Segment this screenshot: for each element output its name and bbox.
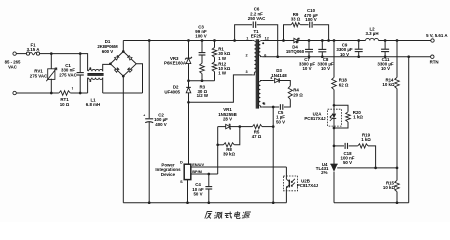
wire AC line top from input L terminal to fuse [16, 53, 27, 55]
node RTN drop [407, 55, 410, 58]
svg-text:400 V: 400 V [155, 122, 167, 127]
svg-text:28 V: 28 V [223, 117, 232, 122]
svg-text:EN/UV: EN/UV [192, 162, 204, 167]
U2B light arrows [291, 179, 295, 186]
svg-text:15TQ060: 15TQ060 [286, 49, 305, 54]
svg-text:33 Ω: 33 Ω [291, 17, 301, 22]
U1 source wire [187, 180, 189, 203]
RTN vertical to secondary ground rail [408, 57, 410, 203]
node bias return on ground rail [272, 201, 275, 204]
blocking diode D2 UF4005 [186, 87, 191, 92]
capacitor C1 [79, 54, 81, 73]
output capacitor C7 [308, 39, 311, 42]
svg-text:Device: Device [161, 172, 176, 177]
svg-text:10 V: 10 V [321, 66, 330, 71]
wire bridge bottom vertex down to primary ground rail [122, 76, 124, 203]
compensation capacitor C18 [334, 145, 344, 147]
resistor R20 parallel loop [334, 105, 348, 112]
svg-text:3.3 µH: 3.3 µH [365, 31, 378, 36]
output inductor L2 [366, 38, 379, 40]
wire U2A cathode to TL431 [333, 128, 335, 146]
wire drain junction to transformer pin 3 [189, 75, 253, 102]
EN/UV line to opto U2B [191, 166, 287, 168]
U2A LED [333, 105, 335, 113]
5V rail D4 to L2 [298, 40, 366, 42]
node C6 right leg on secondary ground rail [276, 55, 279, 58]
svg-text:5: 5 [263, 102, 265, 106]
node snubber left leg [282, 39, 285, 42]
node clamp bottom junction [187, 79, 190, 82]
svg-text:10 V: 10 V [381, 66, 390, 71]
node C4 tap [207, 173, 210, 176]
node U2A anode [333, 104, 336, 107]
svg-text:1 W: 1 W [218, 56, 227, 61]
svg-text:2%: 2% [321, 170, 327, 175]
svg-text:1 kΩ: 1 kΩ [361, 137, 371, 142]
input terminal J1-N [13, 91, 16, 94]
svg-text:1 W: 1 W [218, 71, 227, 76]
output capacitor C9 [357, 39, 360, 42]
svg-text:600 V: 600 V [102, 49, 114, 54]
node bias return [272, 106, 275, 109]
wire L1 bottom-right down to AC bottom line [102, 78, 104, 93]
svg-text:1 kΩ: 1 kΩ [353, 115, 363, 120]
wire L1 bottom-left to AC bottom line [87, 78, 89, 93]
BP/M line [191, 173, 218, 175]
clamp bottom wire [189, 80, 215, 82]
svg-text:UF4005: UF4005 [164, 89, 180, 94]
svg-text:5 V, 5.61 A: 5 V, 5.61 A [426, 33, 448, 38]
node R5 to bias return [272, 125, 275, 128]
node bridge left vertex [109, 62, 112, 65]
secondary 5V rail from pin 12 to D4 [262, 40, 293, 42]
svg-text:39 kΩ: 39 kΩ [223, 152, 236, 157]
bias capacitor C5 [279, 104, 281, 110]
node bridge top vertex [122, 50, 125, 53]
node C3 branch bottom [201, 79, 204, 82]
transformer T1 core [255, 39, 257, 108]
optocoupler U2B box [283, 176, 297, 191]
node A junction on AC top line [50, 52, 53, 55]
snubber capacitor C3 [201, 41, 203, 53]
node U2A cathode [333, 127, 336, 130]
REF line TL431 to divider [337, 167, 397, 169]
phase dot L1 top [89, 67, 91, 69]
shunt regulator U4 TL431 [333, 146, 335, 164]
primary ground rail [123, 202, 286, 204]
svg-text:1N4148: 1N4148 [271, 73, 287, 78]
resistor R8 39k [217, 127, 219, 145]
bias diode D3 1N4148 [262, 80, 274, 82]
T1 primary winding [252, 40, 254, 42]
node C3 top on rail [201, 39, 204, 42]
node VR1 right [238, 125, 241, 128]
T1 secondary winding [260, 40, 262, 42]
caption fan ji shi dian yuan (flyback power supply) drawn strokes [205, 211, 251, 218]
svg-text:6.8 mH: 6.8 mH [86, 102, 100, 107]
phase dot T1 secondary [262, 42, 264, 44]
svg-text:1/2 W: 1/2 W [197, 93, 209, 98]
svg-text:50 V: 50 V [276, 119, 285, 124]
optocoupler U2A box [328, 109, 342, 126]
bias return vertical [272, 107, 274, 203]
svg-text:10 Ω: 10 Ω [60, 102, 70, 107]
wire node A to node B [51, 53, 80, 55]
svg-text:275 VAC: 275 VAC [59, 72, 77, 77]
resistor R5 47 ohm [252, 125, 262, 129]
svg-text:EF25: EF25 [251, 33, 262, 38]
wire AC bottom from L1 to bridge right riser [103, 92, 143, 94]
node snubber right leg on rail [327, 39, 330, 42]
node C2 bottom [148, 201, 151, 204]
svg-text:62 Ω: 62 Ω [339, 82, 349, 87]
opto feed resistor R18 [333, 39, 336, 42]
node C6 left leg on rail [233, 39, 236, 42]
svg-text:2: 2 [246, 54, 248, 58]
resistor R1 30k [214, 41, 216, 48]
5V rail L2 to output terminal [379, 40, 431, 42]
node R1 top on rail [213, 39, 216, 42]
svg-text:3: 3 [246, 70, 248, 74]
fuse F1 [26, 52, 29, 55]
node U1 source on ground rail [186, 201, 189, 204]
RTN terminal [431, 55, 434, 58]
svg-text:RTN: RTN [430, 60, 439, 65]
svg-text:12: 12 [265, 36, 269, 40]
zener VR1 1N5255B [230, 126, 240, 128]
bypass capacitor C4 [208, 174, 210, 186]
svg-text:+: + [143, 113, 145, 117]
svg-text:D: D [180, 160, 183, 164]
wire D3 to R4 [279, 81, 290, 86]
svg-text:3.15 A: 3.15 A [27, 47, 41, 52]
U2A light arrows [330, 114, 333, 121]
svg-text:PC817X4J: PC817X4J [304, 116, 326, 121]
wire bridge top vertex to DC+ rail [122, 41, 124, 52]
phase dot T1 bias [262, 102, 264, 104]
input terminal J1-L [13, 52, 16, 55]
wire RT1 segment to choke corner [70, 92, 87, 94]
svg-text:50 V: 50 V [343, 160, 352, 165]
T1 bias winding [260, 80, 262, 83]
svg-text:275 VAC: 275 VAC [30, 73, 48, 78]
svg-text:10 V: 10 V [302, 66, 311, 71]
secondary ground rail [262, 56, 430, 58]
wire VR1 node to R5 [240, 126, 253, 128]
snubber R9 C10 loop [284, 25, 292, 41]
snubber resistor R3 30 ohm [200, 63, 205, 73]
svg-text:VAC: VAC [8, 64, 17, 69]
svg-text:PC817X4J: PC817X4J [297, 183, 319, 188]
sense divider R14 [396, 41, 398, 78]
wire L1 top-right to bridge left vertex [103, 64, 111, 71]
node VR3 top on DC+ rail [187, 39, 190, 42]
node C1 bottom [79, 92, 82, 95]
svg-text:100 V: 100 V [305, 17, 317, 22]
compensation resistor R19 [358, 144, 368, 148]
svg-text:47 Ω: 47 Ω [252, 134, 262, 139]
U2B phototransistor [285, 167, 287, 179]
bulk capacitor C2 100uF 400V [148, 41, 150, 119]
svg-text:50 V: 50 V [193, 191, 202, 196]
wire fuse to node A [39, 53, 51, 55]
wire R12 bottom corner to clamp junction [214, 72, 216, 81]
U1 TinySwitch IC [184, 164, 191, 179]
node R15 bottom [396, 201, 399, 204]
node C2 top [148, 39, 151, 42]
svg-text:P6KE160A: P6KE160A [164, 61, 187, 66]
Y-capacitor C6 [235, 25, 253, 41]
svg-text:100 V: 100 V [195, 34, 207, 39]
node REF junction [396, 167, 399, 170]
output capacitor C11 [384, 39, 387, 42]
zener VR3 P6KE160A [188, 41, 190, 59]
resistor R12 10k [214, 57, 216, 62]
bias resistor R4 [288, 86, 292, 99]
thermistor RT1 [59, 91, 70, 96]
svg-text:1: 1 [246, 36, 248, 40]
node C4 bottom [207, 201, 210, 204]
riser to bridge right vertex [136, 64, 142, 93]
varistor RV1 [50, 54, 52, 69]
secondary ground bottom rail [334, 202, 409, 204]
node bridge bottom vertex [122, 75, 125, 78]
svg-text:10 kΩ: 10 kΩ [382, 82, 395, 87]
node R8 left junction [216, 143, 219, 146]
wire drain junction down to U1 drain [188, 102, 190, 164]
svg-text:20 Ω: 20 Ω [293, 92, 303, 97]
wire RT1 to RV1 bottom node [50, 92, 53, 95]
svg-text:10 kΩ: 10 kΩ [383, 185, 396, 190]
svg-text:10 V: 10 V [340, 52, 349, 57]
DC+ rail primary [123, 40, 252, 42]
common-mode choke L1 [88, 69, 102, 71]
node drain junction [187, 101, 190, 104]
node output sense [396, 39, 399, 42]
BP/M riser [217, 145, 219, 174]
output capacitor C8 [321, 39, 324, 42]
output terminal 5V [431, 39, 434, 42]
svg-text:250 VAC: 250 VAC [248, 16, 266, 21]
svg-text:BP/M: BP/M [192, 169, 202, 174]
node R19 to REF line [374, 167, 377, 170]
node compensation branch [333, 145, 336, 148]
divider resistor R15 [395, 180, 400, 191]
node B junction C1 top [79, 52, 82, 55]
output diode D4 15TQ060 [294, 38, 298, 42]
wire N terminal to RT1 [16, 92, 59, 94]
bridge rectifier D1 [110, 52, 136, 77]
phase dot L1 bottom [89, 80, 91, 82]
wire node B to L1 corner [80, 54, 87, 71]
